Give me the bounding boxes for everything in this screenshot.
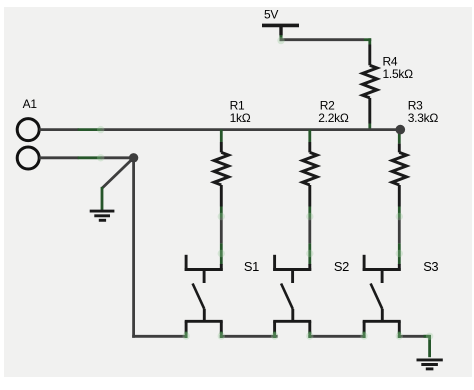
resistor R3: [392, 134, 406, 265]
pin glow S1 left leg: [182, 332, 189, 339]
node A1 terminal pin 2: [17, 147, 39, 169]
junction glow below R1: [218, 213, 225, 220]
junction glow on top bus: [97, 126, 104, 133]
svg-text:S1: S1: [244, 259, 259, 274]
wire top bus from A1 pin1 to node R3: [39, 128, 400, 131]
pin glow at S2 top: [306, 250, 313, 257]
svg-text:5V: 5V: [264, 8, 278, 22]
wire bottom bus segment S3 to GND2: [398, 335, 430, 338]
pin glow S3 left leg: [360, 332, 367, 339]
power rail 5V symbol: [262, 25, 299, 35]
svg-text:1.5kΩ: 1.5kΩ: [383, 67, 414, 81]
junction dot node A1/GND: [129, 153, 138, 162]
svg-text:1kΩ: 1kΩ: [230, 111, 251, 125]
resistor R1: [214, 130, 228, 265]
junction glow below R3: [396, 213, 403, 220]
junction glow below R2: [306, 213, 313, 220]
svg-text:A1: A1: [23, 97, 38, 111]
pin glow S3 right leg: [396, 332, 403, 339]
svg-text:S2: S2: [334, 259, 349, 274]
wire bottom bus to GND2: [424, 336, 432, 357]
resistor R2: [303, 130, 317, 265]
wire bottom bus segment junction to S1: [132, 335, 187, 338]
pin glow at S1 top: [218, 250, 225, 257]
svg-text:2.2kΩ: 2.2kΩ: [318, 111, 349, 125]
svg-text:S3: S3: [423, 259, 438, 274]
wire A1 pin2 to junction: [39, 156, 133, 159]
junction glow at 5V stem: [277, 37, 284, 44]
junction glow at GND2 corner: [426, 333, 433, 340]
wire junction to GND1: [102, 158, 134, 210]
pin glow S1 right leg: [218, 332, 225, 339]
node A1 terminal pin 1: [17, 119, 39, 141]
pin glow S2 right leg: [306, 332, 313, 339]
ground GND1: [90, 211, 115, 220]
wire bottom bus segment S1 to S2: [220, 335, 278, 338]
switch S3 pushbutton: [363, 255, 401, 338]
ground GND2: [417, 360, 443, 369]
pin glow S2 left leg: [271, 332, 278, 339]
switch S2 pushbutton: [273, 255, 311, 338]
svg-text:3.3kΩ: 3.3kΩ: [408, 111, 439, 125]
switch S1 pushbutton: [185, 255, 223, 338]
wire 5V to R4 top: [280, 35, 372, 65]
junction dot node R3: [396, 125, 406, 135]
junction glow on A1 pin2 wire: [97, 154, 104, 161]
wire bottom bus segment S2 to S3: [308, 335, 365, 338]
wire junction down to bottom bus: [132, 158, 135, 338]
pin glow at S3 top: [396, 250, 403, 257]
resistor R4: [363, 65, 377, 131]
